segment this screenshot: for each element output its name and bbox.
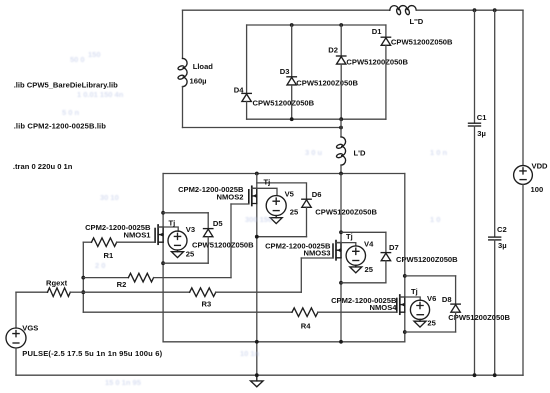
wire D3 branch lower (291, 85, 293, 119)
svg-text:15 0 1n 95: 15 0 1n 95 (105, 378, 141, 387)
svg-text:3 0 u: 3 0 u (305, 148, 323, 157)
svg-text:.lib CPW5_BareDieLibrary.lib: .lib CPW5_BareDieLibrary.lib (14, 81, 118, 90)
wire D7 cathode lead (385, 232, 387, 252)
voltage source V3 (168, 231, 187, 250)
wire NMOS4 drain-source vertical (404, 174, 406, 342)
wire NMOS3 gate lead (301, 257, 333, 259)
svg-text:NMOS4: NMOS4 (369, 303, 397, 312)
svg-text:CPW51200Z050B: CPW51200Z050B (315, 207, 377, 216)
diode D6 (302, 199, 311, 207)
node inner bottom / D3 line (290, 117, 294, 121)
wire VGS bottom lead (15, 348, 17, 375)
wire VDD branch lower (522, 184, 524, 375)
transistor Q3 NMOS3 symbol (333, 241, 341, 260)
diode D4 (242, 93, 251, 101)
wire NMOS3 cell bottom edge (341, 282, 386, 284)
svg-text:V5: V5 (285, 190, 295, 199)
wire bottom ground rail (16, 374, 523, 376)
svg-text:5 0 n: 5 0 n (62, 108, 80, 117)
ground (V5) (270, 216, 282, 224)
wire D8 anode lead (455, 312, 457, 332)
ground (V3) (172, 250, 184, 258)
voltage source V5 (266, 196, 286, 216)
wire C1 branch upper (474, 10, 476, 123)
inductor Lload (178, 58, 188, 86)
svg-text:160µ: 160µ (190, 77, 207, 86)
svg-text:V3: V3 (186, 225, 195, 234)
svg-text:1 0 n: 1 0 n (430, 148, 448, 157)
wire NMOS1 drain-source vertical (162, 174, 164, 342)
svg-text:3µ: 3µ (477, 129, 486, 138)
node inner top / D3 line (290, 23, 294, 27)
wire D2 branch upper (340, 25, 342, 56)
svg-text:R1: R1 (104, 251, 114, 260)
svg-text:D7: D7 (389, 243, 399, 252)
diode D5 (204, 229, 213, 237)
ground (V6) (414, 319, 426, 327)
svg-text:V4: V4 (364, 240, 374, 249)
svg-text:VGS: VGS (22, 323, 38, 332)
wire D6 anode lead (306, 207, 308, 236)
svg-text:1 0: 1 0 (430, 215, 440, 224)
wire NMOS1 cell bottom edge (163, 262, 208, 264)
svg-text:10 1n: 10 1n (240, 349, 260, 358)
wire R1 lead left (83, 241, 91, 243)
wire gate bus vertical (82, 242, 84, 312)
svg-text:R4: R4 (301, 321, 311, 330)
wire NMOS2 drain-source vertical (256, 174, 258, 376)
svg-text:25: 25 (427, 319, 436, 328)
wire D8 cathode lead (455, 276, 457, 304)
svg-text:3µ: 3µ (498, 241, 507, 250)
wire NMOS2 Tj lead (252, 188, 277, 195)
svg-text:NMOS3: NMOS3 (303, 249, 330, 258)
svg-text:L'D: L'D (354, 148, 366, 157)
svg-text:CPW51200Z050B: CPW51200Z050B (448, 313, 510, 322)
wire R4 lead right (318, 311, 397, 313)
svg-text:D4: D4 (234, 86, 244, 95)
resistor R1 (92, 238, 117, 247)
transistor Q2 NMOS2 symbol (249, 186, 257, 205)
wire outer box left edge lower (182, 87, 184, 128)
svg-text:VDD: VDD (532, 161, 549, 170)
node NMOS1 cell top tee (161, 211, 165, 215)
svg-text:CPW51200Z050B: CPW51200Z050B (296, 78, 358, 87)
wire R2 lead left (83, 277, 128, 279)
diode D8 (451, 304, 460, 312)
wire NMOS1 Tj lead (158, 227, 178, 231)
svg-text:Rgext: Rgext (46, 278, 68, 287)
svg-text:.tran 0 220u 0 1n: .tran 0 220u 0 1n (13, 162, 73, 171)
wire R2 lead right (154, 277, 231, 279)
svg-text:PULSE(-2.5 17.5 5u 1n 1n 95u 1: PULSE(-2.5 17.5 5u 1n 1n 95u 100u 6) (22, 349, 162, 358)
wire phase drop above L'D (340, 119, 342, 137)
node NMOS1 cell bottom tee (161, 261, 165, 265)
node dot top rail / C1 branch (473, 8, 477, 12)
node bottom rail / C1 (473, 373, 477, 377)
transistor Q4 NMOS4 symbol (397, 295, 405, 314)
capacitor C1 (469, 123, 481, 126)
wire inner box top edge (247, 24, 386, 26)
node outer bottom joins L'D line (339, 126, 343, 130)
wire phase drop below L'D (340, 165, 342, 173)
diode D3 (287, 77, 296, 85)
wire NMOS2 gate lead (231, 203, 249, 205)
node source rail / NMOS3 source (339, 340, 343, 344)
wire D5 cathode lead (207, 213, 209, 229)
wire Rgext lead left (16, 291, 48, 293)
node NMOS3 cell top tee (339, 230, 343, 234)
svg-text:25: 25 (365, 265, 374, 274)
svg-text:D1: D1 (372, 27, 382, 36)
svg-text:50 0: 50 0 (70, 55, 85, 64)
wire NMOS3 cell top edge (341, 231, 386, 233)
node inner bottom / D2-L'D line (339, 117, 343, 121)
wire R3 lead left (83, 291, 189, 293)
svg-text:D6: D6 (312, 190, 322, 199)
node NMOS2 source / cell bottom (255, 235, 259, 239)
node NMOS4 cell top tee (403, 274, 407, 278)
node bottom rail / ground drop (255, 373, 259, 377)
svg-text:Tj: Tj (264, 177, 271, 186)
voltage source VGS (6, 328, 26, 348)
wire NMOS1 cell top edge (163, 212, 208, 214)
inductor L''D (390, 6, 416, 16)
node inner top / D2 line (339, 23, 343, 27)
wire R4 lead left (83, 311, 292, 313)
svg-text:C2: C2 (497, 225, 507, 234)
inductor L'D (336, 137, 346, 165)
node NMOS3 cell bottom tee (339, 281, 343, 285)
wire C2 branch lower (494, 240, 496, 375)
diode D2 (337, 56, 346, 64)
svg-text:V6: V6 (427, 294, 436, 303)
node gate bus / Rgext-R3 (81, 290, 85, 294)
voltage source V4 (346, 246, 365, 265)
wire D3 branch upper (291, 25, 293, 77)
capacitor C2 (489, 237, 501, 240)
wire R2 riser (230, 204, 232, 278)
wire R1 lead right (117, 241, 155, 243)
wire D6 cathode wire (257, 183, 307, 199)
resistor Rgext (48, 288, 71, 297)
svg-text:300 150: 300 150 (245, 215, 272, 224)
transistor Q1 NMOS1 symbol (155, 225, 163, 244)
wire VGS top lead (15, 292, 17, 328)
svg-text:1 0.01 150 4n: 1 0.01 150 4n (77, 90, 124, 99)
svg-text:D2: D2 (328, 46, 338, 55)
wire NMOS2 cell bottom edge (257, 236, 307, 238)
svg-text:Tj: Tj (411, 287, 418, 296)
node phase rail / NMOS2 drain (255, 172, 259, 176)
ground (V4) (350, 265, 362, 273)
resistor R4 (292, 308, 318, 317)
svg-text:CPW51200Z050B: CPW51200Z050B (253, 99, 315, 108)
wire top rail left segment (183, 9, 390, 11)
node dot top rail / C2 branch (493, 8, 497, 12)
node bottom rail / C2 (493, 373, 497, 377)
resistor R2 (128, 273, 153, 282)
voltage source V6 (410, 300, 429, 319)
svg-text:R3: R3 (202, 300, 212, 309)
wire Rgext lead right (70, 291, 83, 293)
svg-text:30 10: 30 10 (100, 193, 119, 202)
wire D5 anode lead (207, 237, 209, 264)
wire VDD branch upper (522, 10, 524, 165)
wire NMOS4 cell top edge (405, 275, 456, 277)
wire NMOS3 Tj lead (336, 243, 356, 246)
svg-text:Tj: Tj (346, 232, 353, 241)
wire D7 anode lead (385, 261, 387, 283)
wire inner box left edge lower (246, 102, 248, 120)
svg-text:NMOS2: NMOS2 (216, 193, 243, 202)
node gate bus / R2 (81, 276, 85, 280)
svg-text:2 0: 2 0 (95, 261, 105, 270)
diode D1 (381, 37, 390, 45)
node phase rail / L'D line (339, 172, 343, 176)
svg-text:100: 100 (531, 185, 544, 194)
wire NMOS4 cell bottom edge (405, 331, 456, 333)
wire D2 branch lower (340, 64, 342, 119)
wire outer box bottom edge (183, 127, 342, 129)
wire phase rail (163, 173, 405, 175)
wire NMOS4 Tj lead (400, 297, 420, 300)
voltage source VDD (514, 166, 533, 185)
svg-text:Tj: Tj (169, 219, 176, 228)
wire source rail (163, 341, 405, 343)
svg-text:CPW51200Z050B: CPW51200Z050B (346, 57, 408, 66)
svg-text:25: 25 (290, 208, 299, 217)
node source rail / NMOS2 source (255, 340, 259, 344)
svg-text:R2: R2 (117, 280, 127, 289)
svg-text:L''D: L''D (410, 17, 424, 26)
svg-text:Lload: Lload (193, 62, 214, 71)
wire top rail right segment (416, 9, 523, 11)
wire inner box right edge upper (385, 25, 387, 37)
wire C1 branch lower (474, 126, 476, 375)
resistor R3 (190, 288, 216, 297)
svg-text:CPW51200Z050B: CPW51200Z050B (391, 38, 453, 47)
ground (main) (251, 375, 264, 387)
svg-text:D8: D8 (442, 295, 452, 304)
svg-text:C1: C1 (477, 113, 487, 122)
svg-text:.lib CPM2-1200-0025B.lib: .lib CPM2-1200-0025B.lib (14, 121, 107, 130)
wire inner box right edge lower (385, 45, 387, 119)
diode D7 (381, 253, 390, 261)
svg-text:25: 25 (186, 250, 195, 259)
wire R3 riser (300, 258, 302, 292)
wire inner box left edge upper (246, 25, 248, 93)
svg-text:D5: D5 (213, 219, 223, 228)
wire outer box left edge upper (to Lload) (182, 10, 184, 58)
wire C2 branch upper (494, 10, 496, 237)
node NMOS4 cell bottom tee (403, 330, 407, 334)
wire inner box bottom edge (247, 118, 386, 120)
svg-text:NMOS1: NMOS1 (123, 231, 151, 240)
wire R3 lead right (216, 291, 301, 293)
svg-text:CPW51200Z050B: CPW51200Z050B (192, 240, 254, 249)
svg-text:150: 150 (88, 50, 101, 59)
svg-text:D3: D3 (280, 67, 290, 76)
wire NMOS3 drain-source vertical (340, 174, 342, 342)
